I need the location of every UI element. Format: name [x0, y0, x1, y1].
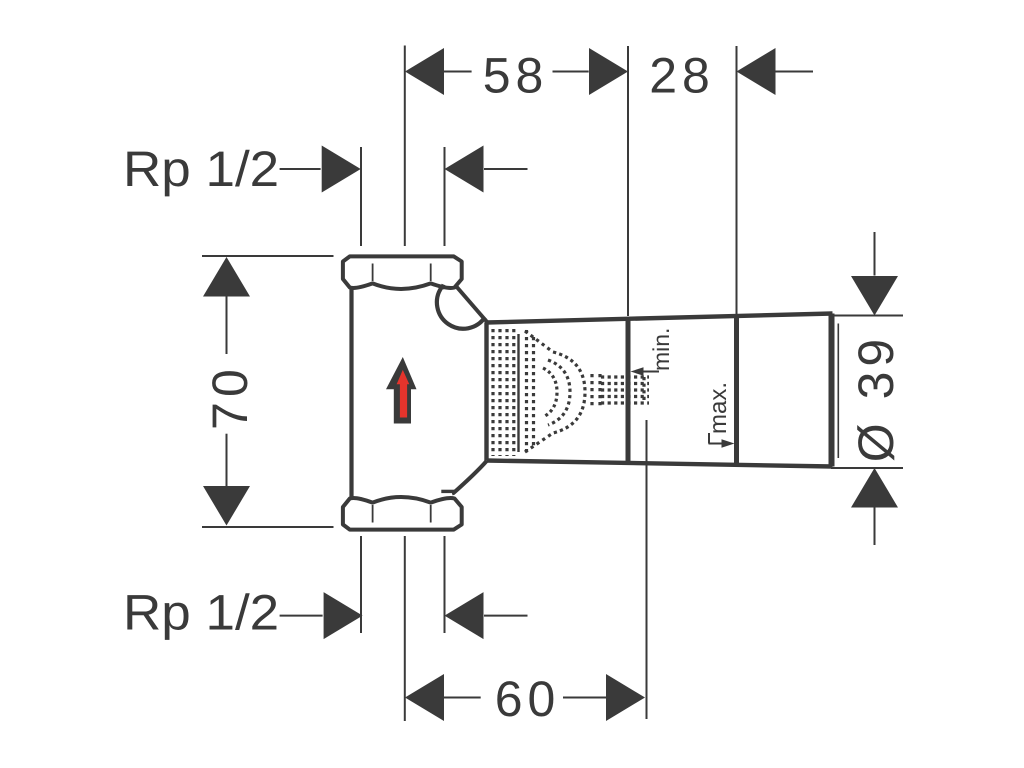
svg-text:min.: min.: [648, 328, 674, 371]
svg-text:Ø 39: Ø 39: [848, 334, 904, 462]
svg-text:58: 58: [483, 48, 549, 104]
svg-text:Rp 1/2: Rp 1/2: [123, 585, 279, 641]
svg-text:max.: max.: [705, 382, 732, 434]
svg-text:Rp 1/2: Rp 1/2: [123, 141, 279, 197]
svg-text:60: 60: [495, 671, 561, 727]
svg-text:70: 70: [202, 364, 258, 430]
svg-text:28: 28: [649, 48, 715, 104]
